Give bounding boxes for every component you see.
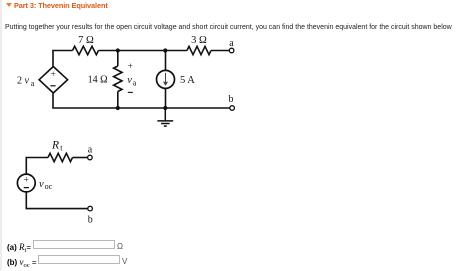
terminal a of thevenin circuit — [88, 155, 93, 160]
section heading — [6, 1, 108, 10]
svg-text:R: R — [51, 140, 59, 152]
answer row (a) — [7, 242, 31, 254]
svg-text:b: b — [229, 94, 234, 105]
wire: top rail middle segment to node A — [99, 50, 119, 52]
svg-text:oc: oc — [45, 182, 53, 191]
node junction: bottom of 14-ohm branch — [116, 106, 120, 110]
svg-text:+: + — [128, 61, 133, 71]
svg-text:14 Ω: 14 Ω — [88, 75, 108, 86]
svg-text:a: a — [133, 79, 137, 88]
answer row (b) — [7, 257, 37, 269]
node label a — [229, 38, 234, 49]
svg-text:a: a — [88, 145, 93, 156]
unit V — [122, 257, 127, 266]
resistor R 7-ohm — [73, 46, 99, 54]
unit ohm — [117, 242, 123, 251]
node junction: top of 14-ohm branch — [116, 48, 120, 52]
node junction: ground / current source bottom — [163, 106, 167, 110]
node label b — [229, 94, 234, 105]
polarity marks inside dependent source — [51, 70, 56, 80]
node junction: top of current source branch — [163, 48, 167, 52]
value label 7 ohm — [78, 35, 94, 46]
left page edge — [0, 0, 2, 271]
svg-text:+: + — [51, 70, 56, 80]
terminal b (open circle) — [230, 106, 235, 111]
polarity label + for va — [128, 61, 133, 71]
wire: bottom rail — [52, 107, 230, 109]
polarity label minus for va — [128, 91, 133, 93]
current source arrow (downward) — [165, 73, 167, 84]
problem statement text — [5, 24, 452, 31]
current source I 5A (circle) — [157, 70, 175, 88]
wire: current source bottom stub — [165, 88, 167, 108]
label 2 va — [17, 76, 35, 89]
svg-text:2 v: 2 v — [17, 76, 30, 87]
polarity minus of voc — [24, 187, 29, 189]
value label 5 A — [180, 75, 195, 86]
node label b — [88, 215, 93, 226]
value label 14 ohm — [88, 75, 108, 86]
svg-text:5 A: 5 A — [180, 75, 195, 86]
thevenin circuit: wire top-left corner — [26, 158, 48, 174]
value label 3 ohm — [191, 35, 207, 46]
dependent source 2va (diamond) — [39, 67, 68, 94]
resistor 14-ohm (vertical) — [114, 66, 122, 92]
wire: current source top stub — [165, 51, 167, 71]
wire: left vertical from top rail down to dependent source top — [52, 51, 54, 68]
svg-text:b: b — [88, 215, 93, 226]
svg-text:a: a — [31, 79, 35, 88]
label voc — [39, 179, 53, 191]
svg-text:7 Ω: 7 Ω — [78, 35, 94, 46]
voltage source voc (circle) — [17, 174, 35, 192]
wire: top rail between 14-ohm node and current-source node — [118, 50, 166, 52]
svg-text:v: v — [39, 179, 44, 190]
wire: top rail left segment — [52, 50, 72, 52]
svg-text:3 Ω: 3 Ω — [191, 35, 207, 46]
resistor Rt — [48, 153, 73, 161]
resistor 3-ohm — [187, 46, 211, 54]
wire: voc bottom to bottom rail and to terminal b — [26, 192, 87, 209]
terminal a (open circle) — [229, 48, 234, 53]
wire: top rail segment to 3-ohm resistor — [165, 50, 187, 52]
wire: Rt to terminal a — [73, 157, 88, 159]
svg-text:v: v — [127, 75, 132, 86]
svg-text:a: a — [229, 38, 234, 49]
answer box (b) — [38, 255, 120, 264]
ground symbol — [157, 108, 173, 126]
node label a — [88, 145, 93, 156]
label Rt — [51, 140, 63, 153]
svg-text:+: + — [24, 175, 29, 185]
svg-text:t: t — [60, 144, 63, 153]
answer box (a) — [33, 240, 115, 249]
terminal b of thevenin circuit — [88, 206, 93, 211]
wire: 14-ohm top stub — [117, 51, 119, 67]
wire: 14-ohm bottom stub — [117, 92, 119, 109]
polarity + of voc — [24, 175, 29, 185]
wire: top rail to terminal a — [211, 50, 229, 52]
variable label va — [127, 75, 137, 88]
wire: bottom-left vertical from dependent source to bottom rail — [52, 93, 54, 108]
